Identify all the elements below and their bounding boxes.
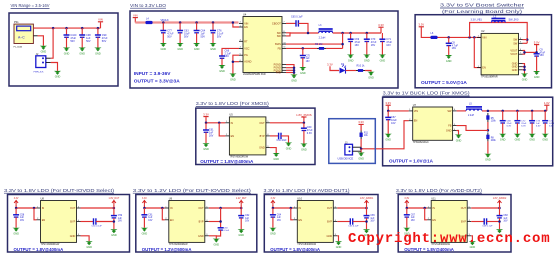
- svg-text:U5: U5: [229, 113, 233, 117]
- title 3.3V to 1.8V LDO (For DUT-IOVDD Select): [4, 188, 115, 193]
- label 2.2uH: [468, 115, 474, 117]
- wire 1.0V output rail: [482, 110, 547, 112]
- label R6: [315, 43, 322, 46]
- wire input: [421, 27, 481, 37]
- label C66: [225, 49, 232, 58]
- svg-text:R10 1k: R10 1k: [357, 64, 366, 67]
- wire cap stub: [162, 23, 164, 31]
- svg-text:50V: 50V: [86, 40, 91, 43]
- svg-text:FB: FB: [448, 125, 452, 128]
- svg-text:16V: 16V: [540, 54, 545, 57]
- wire cap stub: [66, 28, 68, 35]
- svg-text:3.3V: 3.3V: [203, 112, 209, 116]
- svg-text:0.1uF: 0.1uF: [224, 230, 230, 232]
- wire output: [209, 207, 241, 209]
- wire cap to gnd: [212, 33, 214, 43]
- wire PGND1: [286, 65, 294, 75]
- inductor L2: [491, 19, 505, 23]
- wire cap to gnd: [536, 56, 538, 71]
- svg-text:INPUT = 3.9-36V: INPUT = 3.9-36V: [134, 71, 171, 77]
- junction: [366, 32, 369, 35]
- label C68: [503, 215, 508, 222]
- wire cap stub: [15, 208, 17, 215]
- svg-text:FB: FB: [278, 47, 282, 50]
- wire VCC to C66: [222, 48, 239, 56]
- svg-text:TPS7A8300RGW: TPS7A8300RGW: [229, 156, 248, 159]
- junction: [447, 36, 450, 39]
- svg-text:LM43603PWPR PAD: LM43603PWPR PAD: [243, 73, 266, 76]
- junction node VIN / J2: [52, 27, 55, 30]
- wire cap to gnd: [544, 123, 546, 134]
- ground: [238, 229, 245, 237]
- svg-text:VIN to 3.3V LDO: VIN to 3.3V LDO: [130, 3, 167, 8]
- ground: [335, 241, 342, 249]
- svg-text:BYP: BYP: [327, 221, 332, 224]
- svg-text:IN: IN: [231, 122, 234, 125]
- wire VOUT merge: [523, 51, 525, 55]
- wire cap stub: [212, 23, 214, 31]
- svg-text:C65: C65: [370, 215, 375, 217]
- wire C66 to gnd: [221, 58, 223, 65]
- svg-text:C75: C75: [306, 55, 311, 57]
- IC U9: [165, 196, 209, 246]
- wire cap to gnd: [81, 37, 83, 47]
- svg-text:GND: GND: [161, 48, 167, 51]
- svg-text:3.3V to 1.2V LDO (For DUT-IOVD: 3.3V to 1.2V LDO (For DUT-IOVDD Select): [133, 188, 252, 193]
- resistor R11: [360, 131, 363, 140]
- wire BYP: [471, 221, 484, 223]
- svg-text:3.3V_VB1: 3.3V_VB1: [471, 19, 483, 22]
- ground: [445, 55, 452, 63]
- junction: [523, 65, 526, 68]
- label C66: [348, 226, 359, 228]
- wire input: [407, 205, 427, 208]
- wire SW join1: [523, 39, 528, 41]
- wire cap to gnd: [205, 132, 207, 143]
- ground PGND: [290, 75, 297, 83]
- power flag 3.3V 3.3V: [203, 112, 209, 116]
- svg-text:1uF: 1uF: [411, 217, 416, 219]
- svg-text:TPS61089RNR: TPS61089RNR: [481, 75, 498, 78]
- title For Learning Board Only: [442, 9, 523, 14]
- wire flag to R11: [360, 125, 362, 131]
- wire cap to gnd: [502, 123, 504, 134]
- junction: [205, 122, 208, 125]
- wire cap to gnd: [272, 217, 274, 228]
- capacitor C74: [542, 121, 548, 123]
- svg-text:1.8V_XMOS: 1.8V_XMOS: [296, 113, 312, 117]
- ground: [484, 154, 491, 162]
- wire input: [144, 205, 164, 208]
- label R8: [491, 137, 497, 142]
- svg-text:2.2uH: 2.2uH: [319, 36, 326, 39]
- svg-text:VCC: VCC: [244, 47, 249, 50]
- junction: [272, 207, 275, 210]
- wire cap to gnd: [516, 123, 518, 134]
- wire flag stem: [366, 205, 368, 208]
- svg-text:6.3V: 6.3V: [521, 126, 526, 128]
- ground: [542, 134, 549, 142]
- svg-text:6.3V: 6.3V: [307, 132, 312, 135]
- svg-text:100k: 100k: [491, 121, 497, 123]
- wire output: [337, 207, 366, 209]
- svg-text:GND: GND: [291, 79, 297, 82]
- title 3.3V to 1.8V LDO (For XMOS): [196, 101, 270, 106]
- label C65: [370, 215, 375, 222]
- capacitor C100: [64, 35, 70, 37]
- svg-text:GND: GND: [522, 78, 528, 81]
- wire PG/AGND down: [233, 55, 239, 73]
- junction: [498, 220, 501, 223]
- svg-text:EN: EN: [170, 219, 174, 222]
- svg-text:GND: GND: [230, 78, 236, 81]
- svg-text:1uF: 1uF: [118, 218, 123, 220]
- svg-text:50V: 50V: [217, 36, 222, 39]
- label L5: [469, 102, 472, 105]
- svg-text:16V: 16V: [370, 221, 375, 223]
- ground IC: [521, 74, 528, 82]
- ground: [347, 55, 354, 63]
- wire flag stem: [113, 205, 115, 208]
- ferrite bead L6: [430, 36, 437, 39]
- svg-text:GND: GND: [534, 76, 540, 79]
- power flag VIN VIN: [98, 18, 103, 22]
- net label VBULK: [161, 19, 170, 22]
- junction: [523, 51, 526, 54]
- wire cap stub: [516, 111, 518, 121]
- wire node to gnd: [360, 149, 362, 153]
- junction: [113, 207, 116, 210]
- junction: [365, 220, 368, 223]
- svg-text:IN: IN: [299, 207, 302, 210]
- wire cap stub: [81, 28, 83, 35]
- svg-text:3.3V to 1.8V LDO (For XMOS): 3.3V to 1.8V LDO (For XMOS): [196, 101, 270, 106]
- svg-text:GND: GND: [259, 147, 265, 150]
- svg-text:GND: GND: [41, 51, 47, 54]
- wire EN: [34, 208, 37, 220]
- svg-text:EN: EN: [299, 219, 303, 222]
- label 2.2uH: [319, 36, 326, 39]
- wire SW merge: [286, 33, 290, 36]
- svg-text:BYP: BYP: [260, 135, 265, 138]
- junction: [303, 122, 306, 125]
- wire flag stem: [380, 28, 382, 33]
- svg-text:GND: GND: [364, 59, 370, 62]
- capacitor C76: [210, 31, 216, 33]
- ground: [363, 229, 370, 237]
- svg-text:GND: GND: [111, 234, 117, 237]
- wire OUT to BYP cap: [220, 208, 222, 228]
- svg-text:2.2uH: 2.2uH: [468, 115, 474, 117]
- svg-text:6.3V: 6.3V: [507, 126, 512, 128]
- junction: [81, 27, 84, 30]
- ground: [209, 43, 216, 51]
- label C98: [86, 34, 91, 43]
- wire cap to gnd: [113, 218, 115, 229]
- wire EN from USB block: [361, 121, 409, 149]
- wire cap to gnd: [366, 218, 368, 229]
- wire cap stub: [272, 208, 274, 215]
- wire cap to gnd: [240, 218, 242, 229]
- svg-text:16V: 16V: [452, 47, 457, 50]
- svg-text:OUT: OUT: [198, 207, 204, 210]
- junction: [468, 36, 471, 39]
- svg-text:OUT: OUT: [461, 207, 467, 210]
- svg-text:1.8V_DUT: 1.8V_DUT: [109, 198, 120, 200]
- svg-text:VIN: VIN: [482, 36, 486, 39]
- power flag 3.3V 3.3V: [142, 198, 147, 204]
- wire cap to gnd: [499, 218, 501, 229]
- wire input: [16, 205, 36, 208]
- power flag 1.8V_DUT 1.8V_DUT: [109, 198, 120, 204]
- svg-text:GND: GND: [512, 69, 518, 72]
- ground: [86, 241, 93, 249]
- resistor R8: [486, 132, 489, 141]
- wire input: [206, 117, 225, 123]
- junction: [349, 32, 352, 35]
- wire GND merge: [523, 64, 525, 74]
- ground: [299, 67, 306, 75]
- title 3.3V to 1.8V LDO (For AVDD-DUT1): [264, 188, 351, 193]
- svg-text:GND: GND: [529, 139, 535, 142]
- wire EN: [291, 208, 294, 220]
- label C65: [291, 16, 303, 19]
- wire CBOOT: [286, 22, 296, 24]
- title VIN to 3.3V LDO: [130, 3, 167, 8]
- svg-text:TPS7A8300RGW: TPS7A8300RGW: [169, 243, 188, 246]
- wire GND pin: [209, 236, 217, 239]
- svg-text:C60 0.1uF: C60 0.1uF: [92, 226, 103, 228]
- ground: [273, 153, 280, 161]
- connector J2: [34, 53, 51, 74]
- svg-text:EN: EN: [432, 219, 436, 222]
- svg-text:200k: 200k: [491, 140, 497, 142]
- svg-text:GND: GND: [515, 139, 521, 142]
- wire cap stub: [387, 111, 389, 118]
- title 3.3V to 5V Boost Switcher: [440, 3, 525, 8]
- label C73: [536, 120, 541, 127]
- wire FB tap: [342, 33, 344, 48]
- power jack PS1: [14, 21, 34, 48]
- ground: [177, 43, 184, 51]
- label C100: [70, 34, 77, 43]
- svg-text:GND: GND: [456, 139, 462, 142]
- svg-text:VBULK: VBULK: [161, 19, 170, 22]
- wire EN: [219, 123, 225, 136]
- junction: [232, 21, 235, 24]
- svg-text:C66 0.1uF: C66 0.1uF: [348, 226, 359, 228]
- svg-text:RT: RT: [244, 40, 248, 43]
- svg-text:SW: SW: [447, 110, 452, 113]
- power flag 3.3V 3.3V: [271, 198, 276, 204]
- wire SW to L3: [290, 32, 319, 34]
- label C72: [521, 120, 527, 127]
- svg-text:IN: IN: [170, 207, 173, 210]
- ground: [379, 55, 386, 63]
- capacitor C63: [218, 228, 224, 230]
- svg-text:SW_5V0: SW_5V0: [509, 19, 519, 22]
- svg-text:GND: GND: [485, 159, 491, 162]
- wire cap to gnd: [179, 33, 181, 43]
- svg-text:16V: 16V: [355, 44, 360, 47]
- junction: [219, 207, 222, 210]
- wire BYP cap to rail: [353, 221, 367, 223]
- title 3.3V to 1V BUCK LDO (For XMOS): [383, 91, 471, 96]
- svg-text:GND: GND: [214, 243, 220, 246]
- svg-text:BIAS: BIAS: [275, 43, 281, 46]
- inductor L3: [319, 29, 333, 33]
- svg-text:PAD: PAD: [276, 72, 281, 75]
- ground: [160, 43, 167, 51]
- capacitor C62: [238, 216, 244, 218]
- svg-text:EN: EN: [231, 135, 235, 138]
- label R5: [491, 118, 497, 123]
- label C70: [371, 38, 377, 47]
- wire cap to gnd: [162, 33, 164, 43]
- svg-text:GND: GND: [64, 52, 70, 55]
- svg-text:EN: EN: [414, 120, 418, 123]
- svg-text:3.3V: 3.3V: [327, 63, 333, 67]
- label C64: [277, 214, 282, 221]
- junction: [33, 207, 36, 210]
- svg-text:3.3V: 3.3V: [358, 120, 364, 124]
- wire cap stub: [240, 208, 242, 216]
- wire jack pin2 to ground: [33, 35, 37, 37]
- capacitor C59: [279, 133, 281, 139]
- svg-text:U11: U11: [431, 196, 436, 200]
- svg-text:50V: 50V: [184, 36, 189, 39]
- wire 3.3V output rail: [333, 32, 381, 34]
- svg-text:16V: 16V: [503, 221, 508, 223]
- ground: [285, 143, 292, 151]
- ferrite bead L4: [145, 21, 152, 24]
- border VIN to 3.3V LDO: [130, 11, 398, 88]
- label C8: [452, 41, 459, 50]
- svg-text:16V: 16V: [225, 55, 230, 58]
- junction: [302, 47, 305, 50]
- ground: [110, 229, 117, 237]
- wire cap to gnd: [143, 217, 145, 228]
- junction: [487, 110, 490, 113]
- net label 3.3V_VB1: [471, 19, 483, 22]
- svg-text:BYP: BYP: [70, 221, 75, 224]
- ground: [514, 134, 521, 142]
- ground: [363, 55, 370, 63]
- svg-text:3.3V: 3.3V: [14, 198, 19, 200]
- junction: [365, 207, 368, 210]
- junction: [65, 27, 68, 30]
- wire flag stem: [499, 205, 501, 208]
- wire PGND2: [286, 67, 294, 69]
- wire cap stub: [143, 208, 145, 215]
- power flag 1.8V_AVDD2 1.8V_AVDD2: [493, 197, 507, 204]
- ground: [63, 48, 70, 56]
- svg-text:3.3V to 1V BUCK LDO (For XMOS): 3.3V to 1V BUCK LDO (For XMOS): [383, 91, 471, 96]
- capacitor C77: [160, 31, 166, 33]
- wire SW join2: [523, 42, 528, 44]
- label C68: [507, 120, 513, 127]
- junction: [161, 207, 164, 210]
- svg-text:GND: GND: [95, 52, 101, 55]
- capacitor C65: [296, 20, 298, 26]
- wire EN tie: [233, 23, 239, 28]
- wire cap stub: [196, 23, 198, 31]
- svg-text:VIN: VIN: [133, 13, 138, 17]
- wire EN: [474, 37, 481, 67]
- ground: [385, 134, 392, 142]
- wire cap stub: [366, 208, 368, 216]
- wire input rail (thick): [135, 21, 238, 23]
- junction: [516, 110, 519, 113]
- wire BYP: [270, 135, 279, 137]
- svg-text:PWR-JCK: PWR-JCK: [34, 72, 45, 74]
- svg-text:GND: GND: [238, 234, 244, 237]
- wire BYP: [81, 221, 94, 223]
- junction: [162, 21, 165, 24]
- svg-text:3.3V to 5V Boost Switcher: 3.3V to 5V Boost Switcher: [440, 3, 525, 8]
- capacitor C68: [497, 216, 503, 218]
- svg-text:3.3V: 3.3V: [378, 23, 384, 27]
- svg-text:IN: IN: [42, 207, 45, 210]
- capacitor C66: [350, 218, 352, 224]
- svg-text:OUTPUT = 1.8V@400mA: OUTPUT = 1.8V@400mA: [270, 247, 320, 252]
- net label 3.3V: [327, 63, 333, 67]
- ground: [79, 48, 86, 56]
- ground: [403, 228, 410, 236]
- label C76: [217, 30, 224, 39]
- label R11: [364, 132, 369, 137]
- ground: [94, 48, 101, 56]
- capacitor C66: [219, 56, 225, 58]
- label C63: [224, 227, 230, 232]
- svg-text:OUTPUT = 1.0V@1A: OUTPUT = 1.0V@1A: [389, 159, 434, 164]
- svg-text:16V: 16V: [391, 122, 396, 125]
- junction: [531, 110, 534, 113]
- junction: [544, 110, 547, 113]
- wire cap stub: [179, 23, 181, 31]
- border 3.3V to 1.8V LDO (For AVDD-DUT1): [264, 195, 378, 253]
- svg-text:VIN: VIN: [244, 22, 248, 25]
- IC U4: [239, 12, 287, 76]
- svg-text:3.3V: 3.3V: [404, 198, 409, 200]
- junction: [523, 69, 526, 72]
- junction: [473, 36, 476, 39]
- wire R10 to gnd: [365, 71, 371, 72]
- label C75: [306, 55, 311, 62]
- junction: [501, 110, 504, 113]
- power flag 3.3V 3.3V: [418, 23, 424, 27]
- wire GND pin: [337, 236, 338, 242]
- svg-text:GND: GND: [301, 148, 307, 151]
- svg-text:TPS7A8300RGW: TPS7A8300RGW: [41, 243, 60, 246]
- junction: [526, 38, 529, 41]
- wire cap stub: [448, 37, 450, 43]
- svg-text:GND: GND: [446, 60, 452, 63]
- svg-text:1uF: 1uF: [306, 58, 311, 60]
- wire FB left: [286, 47, 317, 49]
- wire LED to R10: [346, 70, 357, 72]
- svg-text:GND: GND: [194, 48, 200, 51]
- wire cap stub: [350, 33, 352, 39]
- wire PAD: [286, 72, 294, 74]
- wire output: [81, 207, 114, 209]
- junction: [212, 21, 215, 24]
- svg-text:16V: 16V: [209, 134, 214, 137]
- junction: [15, 207, 18, 210]
- svg-text:16V: 16V: [245, 221, 250, 223]
- junction USB node: [360, 148, 363, 151]
- wire cap to gnd: [66, 37, 68, 47]
